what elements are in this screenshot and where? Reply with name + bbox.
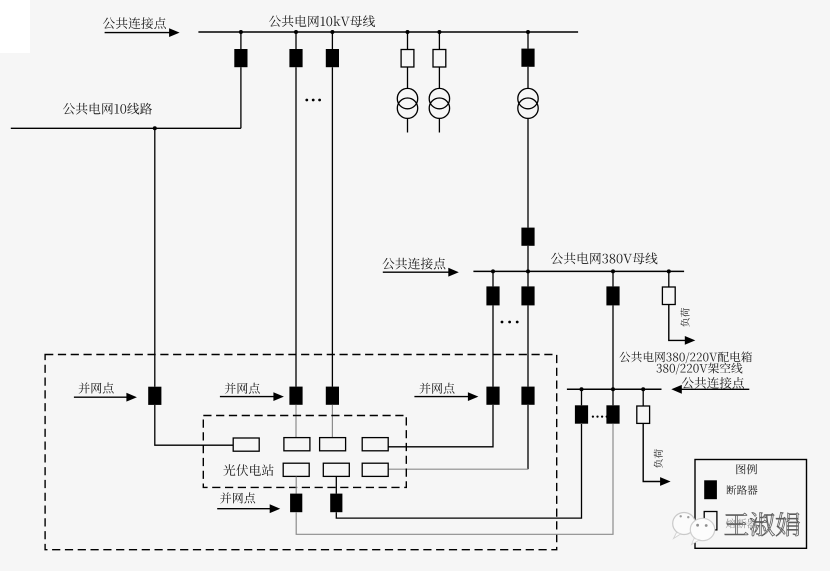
legend symbol: breaker	[704, 480, 717, 499]
node: bus junction QF4	[526, 30, 530, 34]
legend box	[695, 460, 807, 549]
inverter INV-G	[362, 463, 388, 476]
wire: bus to breaker QF1	[240, 32, 242, 49]
transformer T1	[397, 88, 417, 108]
breaker QF11 (PV tie 4)	[486, 387, 499, 405]
380V bus	[473, 270, 684, 272]
legend title: 图例	[736, 464, 757, 474]
inverter INV-E	[283, 463, 309, 476]
grid-tie arrow 4	[217, 508, 272, 510]
label: 公共电网10kV母线	[269, 15, 375, 27]
outer dashed boundary box	[45, 355, 557, 550]
watermark: chat-bubble logo	[673, 513, 715, 545]
220V distribution bus	[567, 388, 662, 390]
wire: bus to breaker QF4	[527, 32, 529, 49]
wire: T3 down to breaker QF5	[527, 118, 529, 227]
wire: QF1 down to 10kV line	[240, 67, 242, 128]
breaker QF8 (PV tie 3)	[326, 387, 339, 405]
wire (gray): QF8 to inverter INV-C	[331, 405, 333, 438]
breaker QF9	[486, 286, 499, 305]
transformer T2	[429, 88, 449, 108]
load arrow (220V load)	[660, 477, 671, 486]
wire: QF6 down and right to inverter INV-A	[155, 405, 234, 445]
load branch wire from FU4	[643, 423, 662, 481]
label: 负荷 (380V load, rotated)	[681, 308, 690, 327]
inverter INV-C	[320, 438, 346, 451]
node: 220V bus junction FU4	[641, 387, 645, 391]
wire (gray): QF7 to inverter INV-B	[295, 405, 297, 438]
label: 公共连接点 (top-left)	[103, 17, 166, 29]
node: bus junction QF1	[239, 30, 243, 34]
label: 负荷 (220V load, rotated)	[654, 449, 663, 468]
breaker QF10	[521, 286, 534, 305]
wire: 10kV line down to QF6	[154, 128, 156, 386]
wire: QF13 down to 220V bus	[612, 305, 614, 389]
label: 并网点 2	[225, 383, 260, 394]
PCC arrow (380V bus)	[383, 271, 451, 273]
legend label: 断路器	[727, 485, 758, 495]
wire: QF3 down to PV breaker QF8	[331, 67, 333, 386]
ellipsis dots between feeders	[305, 99, 321, 102]
breaker QF14	[575, 405, 588, 423]
breaker QF6 (PV tie 1)	[148, 387, 161, 405]
wire: 220V bus to breaker QF15	[612, 389, 614, 405]
wire: QF12 down	[527, 405, 529, 469]
PCC arrow (top-left)	[105, 32, 172, 34]
inverter INV-D	[362, 438, 388, 451]
breaker QF17	[330, 494, 342, 513]
label: 并网点 1	[79, 383, 114, 394]
fuse FU1	[401, 50, 414, 68]
wire: 380V bus to fuse FU3	[668, 271, 670, 287]
breaker QF7 (PV tie 2)	[289, 387, 302, 405]
node: bus junction QF13	[611, 269, 615, 273]
inner dashed box: PV station	[203, 416, 406, 488]
legend label: 熔断器 (partly hidden)	[726, 519, 757, 529]
fuse FU4	[637, 406, 650, 423]
white patch (top-left)	[0, 0, 30, 53]
wire: stub below T2	[438, 118, 440, 132]
label: 公共连接点 (380V)	[382, 258, 445, 270]
watermark text: 王淑娟	[725, 512, 800, 536]
node: bus junction FU2	[437, 30, 441, 34]
label: 公共连接点 (bottom-right)	[682, 377, 744, 389]
node: junction on 10kV line	[153, 126, 157, 130]
10kV public line (horizontal)	[11, 127, 241, 129]
grid-tie arrow 1	[74, 396, 129, 398]
load branch wire from FU3	[669, 305, 687, 341]
label: 380/220V架空线	[657, 363, 743, 375]
inverter INV-F	[323, 463, 349, 476]
wire: 380V bus to breaker QF13	[612, 271, 614, 286]
wire: QF4 to transformer T3	[527, 67, 529, 89]
breaker QF1	[234, 49, 247, 67]
wire: FU1 to transformer T1	[407, 67, 409, 89]
label: 公共电网10线路	[63, 103, 152, 115]
PCC arrow (left-pointing, 220V line)	[679, 388, 749, 390]
wire: stub below T1	[407, 118, 409, 132]
node: bus junction x528	[526, 269, 530, 273]
breaker QF4	[521, 49, 534, 67]
legend symbol: fuse	[704, 512, 717, 530]
wire: bus to fuse FU1	[407, 32, 409, 50]
breaker QF5	[521, 228, 534, 246]
node: bus junction QF2	[294, 30, 298, 34]
wire: 380V bus to breaker QF9	[492, 271, 494, 286]
wire: QF11 down and left to inverter INV-D	[388, 405, 493, 447]
breaker QF13	[606, 286, 619, 305]
wire: QF2 down to PV breaker QF7	[295, 67, 297, 386]
node: 220V bus junction QF14	[580, 387, 584, 391]
label: 公共电网380V母线	[551, 252, 658, 264]
node: bus junction FU3	[667, 269, 671, 273]
node: 220V bus junction QF15	[611, 387, 615, 391]
breaker QF15	[606, 405, 619, 423]
inverter INV-A	[233, 438, 259, 451]
node: bus junction QF9	[491, 269, 495, 273]
node: bus junction FU1	[406, 30, 410, 34]
label: 公共电网380/220V配电箱	[619, 352, 752, 364]
wire: QF5 down to 380V bus	[527, 246, 529, 272]
transformer T3	[518, 88, 538, 108]
10kV bus	[198, 31, 578, 33]
node: bus junction QF3	[330, 30, 334, 34]
breaker QF12 (PV tie 5)	[521, 387, 534, 405]
load arrow (380V load)	[685, 336, 696, 345]
ellipsis dots on 380V feeders	[501, 321, 519, 324]
fuse FU3	[662, 287, 675, 305]
ellipsis dots between QF14 QF15	[592, 416, 608, 418]
fuse FU2	[433, 50, 446, 68]
label: 并网点 4	[220, 492, 255, 503]
grid-tie arrow 3	[414, 396, 470, 398]
grid-tie arrow 2	[220, 396, 276, 398]
wire: QF10 down to PV breaker QF12	[527, 305, 529, 386]
label: 并网点 3	[420, 383, 455, 394]
wire: QF9 down to PV breaker QF11	[492, 305, 494, 386]
wire: FU2 to transformer T2	[438, 67, 440, 89]
wire (gray): QF16 down right up to QF15	[296, 424, 613, 535]
wire: 220V bus to breaker QF14	[581, 389, 583, 405]
wire (gray): corner to inverter INV-G	[388, 468, 528, 470]
wire (gray): inverter INV-E down to QF16	[295, 477, 297, 494]
label: 光伏电站	[223, 464, 273, 476]
wire: QF17 down right up to QF14	[336, 424, 581, 518]
breaker QF16	[290, 494, 302, 513]
wire: bus to fuse FU2	[438, 32, 440, 50]
wire: 220V bus to fuse FU4	[642, 389, 644, 406]
wire: bus to breaker QF2	[295, 32, 297, 49]
breaker QF2	[289, 49, 302, 67]
inverter INV-B	[284, 438, 310, 451]
wire: inverter INV-F down to QF17	[335, 477, 337, 494]
breaker QF3	[326, 49, 339, 67]
wire: bus to breaker QF3	[331, 32, 333, 49]
wire: 380V bus to breaker QF10	[527, 271, 529, 286]
